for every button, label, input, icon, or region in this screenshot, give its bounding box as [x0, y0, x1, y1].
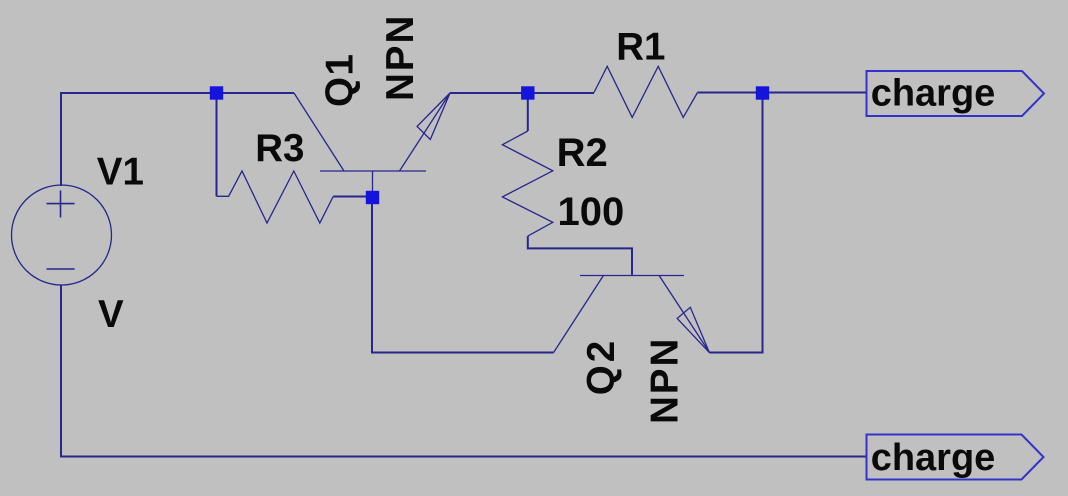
svg-text:R2: R2 [557, 131, 608, 175]
svg-text:100: 100 [558, 190, 625, 234]
svg-text:NPN: NPN [379, 14, 422, 101]
svg-text:R1: R1 [616, 26, 665, 69]
svg-text:R3: R3 [255, 127, 304, 170]
svg-text:charge: charge [871, 437, 996, 479]
svg-text:NPN: NPN [644, 337, 687, 424]
svg-text:Q2: Q2 [580, 338, 623, 395]
svg-text:V1: V1 [97, 151, 144, 194]
svg-text:charge: charge [871, 73, 996, 115]
svg-text:Q1: Q1 [319, 53, 362, 107]
svg-text:V: V [98, 293, 124, 336]
